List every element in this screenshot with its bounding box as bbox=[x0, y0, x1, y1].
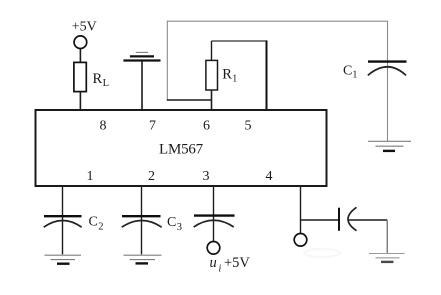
wire pin3 bbox=[213, 186, 215, 242]
svg-text:1: 1 bbox=[87, 169, 94, 184]
svg-text:R: R bbox=[93, 71, 103, 87]
svg-text:C: C bbox=[167, 215, 176, 230]
terminal ui circle bbox=[207, 242, 220, 255]
svg-text:C: C bbox=[89, 215, 98, 230]
resistor R1 bbox=[206, 60, 218, 90]
capacitor C1 bbox=[368, 60, 407, 62]
wire pin1 bbox=[62, 186, 64, 254]
wire pin5 vertical bbox=[266, 40, 268, 110]
svg-text:1: 1 bbox=[232, 74, 237, 85]
svg-text:3: 3 bbox=[203, 169, 210, 184]
wire pin8 top bbox=[79, 48, 81, 62]
svg-text:LM567: LM567 bbox=[159, 142, 204, 158]
svg-text:L: L bbox=[103, 78, 109, 89]
ground C3 bbox=[124, 254, 162, 256]
svg-text:C: C bbox=[343, 64, 352, 79]
wire cap to ground bbox=[348, 219, 387, 221]
resistor RL bbox=[74, 62, 86, 91]
wire outer loop pin6 to C1 top bbox=[167, 21, 387, 100]
capacitor C2 bbox=[44, 215, 82, 217]
wire junction pin6 horizontal bbox=[167, 99, 212, 101]
IC U1 LM567 bbox=[36, 110, 327, 186]
svg-text:+5V: +5V bbox=[72, 20, 97, 35]
wire pin6 stubs bbox=[211, 41, 213, 61]
svg-text:u: u bbox=[210, 255, 217, 271]
svg-text:i: i bbox=[219, 264, 222, 275]
terminal output circle bbox=[294, 234, 307, 247]
wire pin4 horizontal bbox=[301, 219, 339, 221]
svg-text:3: 3 bbox=[177, 222, 182, 233]
ground right-bottom bbox=[369, 253, 405, 255]
svg-text:6: 6 bbox=[203, 118, 210, 133]
wire pin4 bbox=[300, 186, 302, 234]
terminal +5V circle bbox=[74, 36, 87, 49]
capacitor C3 bbox=[122, 215, 161, 217]
ground (inverted) at pin7 bbox=[123, 59, 160, 61]
svg-text:+5V: +5V bbox=[224, 255, 250, 271]
capacitor at pin3 bbox=[194, 214, 235, 216]
wire inner loop top R1 to pin5 bbox=[212, 40, 267, 42]
ground C1 bbox=[368, 140, 411, 142]
coupling capacitor bbox=[338, 208, 340, 231]
svg-text:8: 8 bbox=[100, 118, 107, 133]
svg-text:4: 4 bbox=[266, 169, 273, 184]
svg-text:7: 7 bbox=[149, 118, 156, 133]
wire pin7 bbox=[141, 61, 143, 111]
ground C2 bbox=[45, 254, 82, 256]
wire pin8 bottom bbox=[79, 92, 81, 111]
svg-text:R: R bbox=[222, 66, 232, 82]
wire C1 body vertical bbox=[387, 61, 389, 141]
faint watermark smudge bbox=[304, 249, 340, 257]
svg-text:5: 5 bbox=[245, 118, 252, 133]
svg-text:1: 1 bbox=[352, 70, 357, 81]
wire pin2 bbox=[141, 186, 143, 254]
svg-text:2: 2 bbox=[98, 222, 103, 233]
svg-text:2: 2 bbox=[148, 169, 155, 184]
